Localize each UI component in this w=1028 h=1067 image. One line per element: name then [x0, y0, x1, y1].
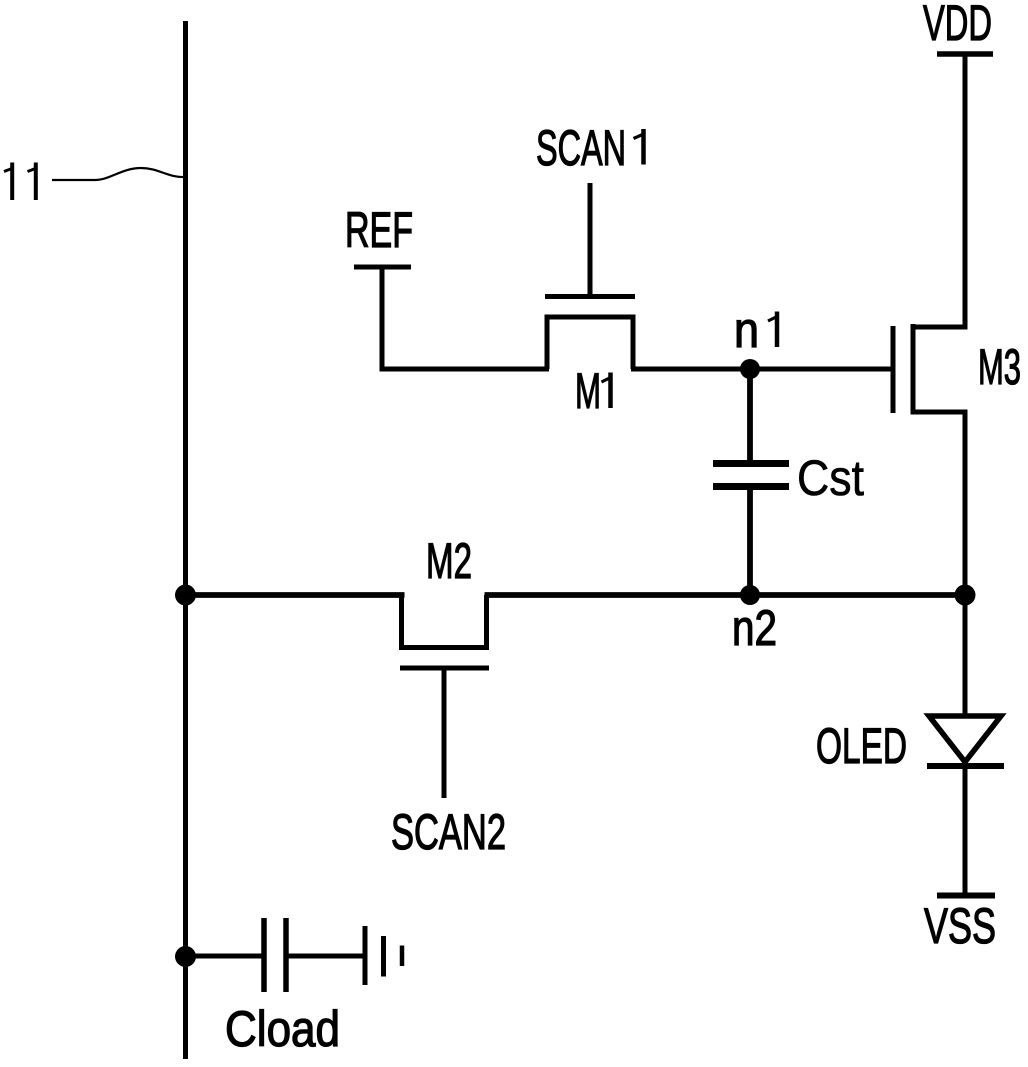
wire OLED cathode to VSS — [963, 769, 968, 895]
svg-text:VSS: VSS — [924, 898, 996, 954]
svg-text:M2: M2 — [426, 533, 472, 589]
leader line for label 11 — [52, 168, 186, 180]
svg-text:Cst: Cst — [797, 450, 864, 506]
capacitor Cload right plate — [283, 918, 289, 992]
svg-text:Cload: Cload — [225, 1001, 340, 1057]
wire M1 drain to n1 and M3 gate — [631, 367, 891, 372]
svg-text:VDD: VDD — [923, 0, 992, 51]
wire REF to M1 source — [380, 367, 550, 372]
wire REF lead down — [380, 267, 385, 369]
power VDD terminal bar — [937, 51, 993, 57]
diode OLED anode wire — [963, 595, 968, 716]
transistor M2 gate bar — [400, 666, 489, 671]
transistor M3 gate bar — [891, 326, 896, 413]
capacitor Cst top plate — [713, 460, 789, 467]
svg-text:M3: M3 — [978, 339, 1021, 395]
diode OLED triangle — [929, 716, 1001, 762]
label 11 — [4, 163, 36, 201]
capacitor Cload left plate — [261, 918, 267, 992]
ground bar 3 — [400, 946, 405, 967]
wire data line 11 (left vertical bus) — [183, 21, 188, 1059]
transistor M1 channel — [547, 317, 633, 369]
capacitor Cst bottom plate — [713, 483, 789, 490]
transistor M3 source lead down to n2 — [911, 412, 966, 595]
node dot at M3 source column junction — [955, 585, 976, 606]
wire M2 gate to SCAN2 — [442, 670, 447, 798]
diode OLED cathode bar — [927, 763, 1004, 769]
transistor M3 drain lead to VDD — [911, 54, 966, 327]
transistor M2 channel — [402, 595, 487, 648]
node dot at data line tap — [175, 585, 196, 606]
ground bar 2 — [381, 936, 386, 977]
terminal REF bar — [354, 265, 411, 270]
svg-text:n: n — [734, 302, 759, 358]
node n1 junction dot — [740, 359, 760, 379]
transistor M1 gate bar — [545, 294, 635, 299]
svg-text:M: M — [575, 363, 601, 419]
wire Cload to ground — [286, 954, 365, 959]
node dot at Cload tap — [175, 946, 196, 967]
wire SCAN1 to M1 gate — [588, 183, 593, 294]
capacitor Cst top lead wire — [747, 369, 753, 462]
power VSS terminal bar — [937, 893, 995, 899]
node n2 junction dot — [740, 585, 760, 605]
wire M2 drain to n2 and M3 source column — [485, 592, 966, 598]
svg-text:OLED: OLED — [816, 718, 907, 774]
wire n2 row left segment (data line to M2) — [183, 592, 405, 598]
svg-text:n2: n2 — [732, 600, 777, 656]
transistor M3 channel bar — [911, 324, 916, 414]
svg-text:REF: REF — [345, 202, 413, 258]
svg-text:SCAN: SCAN — [536, 120, 626, 176]
ground bar 1 — [363, 926, 368, 985]
svg-text:SCAN2: SCAN2 — [391, 804, 506, 860]
wire data line to Cload — [186, 954, 265, 959]
capacitor Cst bottom lead wire — [747, 488, 753, 595]
